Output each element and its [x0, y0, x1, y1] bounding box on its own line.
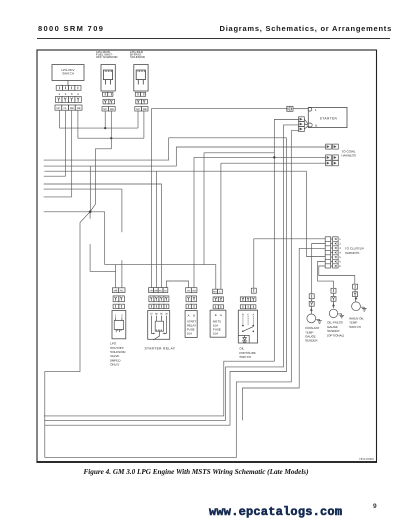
- starter terminal B: [308, 123, 312, 127]
- figure caption: [0, 468, 396, 476]
- wire bus y171 to relay86: [44, 170, 306, 172]
- header rule: [37, 38, 390, 39]
- svg-text:C: C: [219, 291, 221, 294]
- svg-text:A: A: [252, 313, 254, 316]
- switch SW2 oil pressure body: [238, 310, 257, 343]
- svg-text:NC: NC: [136, 108, 140, 111]
- svg-text:5: 5: [339, 256, 341, 259]
- svg-text:C: C: [247, 313, 249, 316]
- svg-text:SWITCH: SWITCH: [349, 325, 361, 329]
- connector J1 row B sockets: [56, 97, 82, 103]
- svg-text:1: 1: [59, 92, 61, 96]
- wire mstsB riser: [220, 163, 222, 289]
- wire Z3 relay30 loop: [45, 138, 287, 425]
- wire L2 left drop: [137, 111, 138, 128]
- connector L2 socket row: [136, 99, 148, 104]
- starter terminal 1: [308, 108, 312, 112]
- sensor temp switch circle: [352, 302, 361, 311]
- wire valve right riser: [121, 189, 123, 288]
- svg-text:2: 2: [339, 243, 341, 246]
- connector 3-cell at starter B: [299, 117, 305, 132]
- wire bus y176 step: [44, 175, 66, 177]
- svg-text:NC: NC: [57, 107, 61, 110]
- wire step B to cowl upper: [44, 147, 326, 166]
- connector cowl upper pair: [326, 144, 339, 149]
- fuse F2 msts body: [210, 310, 226, 337]
- svg-text:MB: MB: [70, 107, 74, 110]
- svg-text:8: 8: [339, 265, 341, 268]
- svg-text:MA: MA: [213, 291, 217, 294]
- wire bus y197: [44, 196, 72, 198]
- sensor oil press circle: [329, 309, 337, 317]
- wire node step from y138 bus: [90, 138, 111, 212]
- connector relay label row: [149, 288, 154, 293]
- svg-text:1: 1: [339, 238, 341, 241]
- wire bridge relay-fuse: [166, 281, 188, 288]
- node J main: [89, 211, 92, 214]
- header right: [220, 24, 392, 33]
- svg-text:SWITCH: SWITCH: [62, 72, 74, 76]
- connector oil sender pair: [331, 288, 336, 293]
- switch S1 LPG REV SWITCH: [52, 65, 84, 81]
- wire row5 feed: [307, 171, 326, 256]
- wire cluster2 to coolant: [312, 244, 326, 294]
- connector L1 plug row: [103, 92, 113, 96]
- watermark: [0, 505, 400, 519]
- wire Z4 starter cell3 loop: [45, 131, 299, 458]
- label oil sender: [327, 321, 344, 338]
- svg-text:85: 85: [160, 313, 163, 316]
- wire battery to starter 1: [293, 108, 308, 110]
- wire node stub down: [89, 212, 91, 219]
- wire cluster3: [299, 247, 325, 249]
- svg-text:30: 30: [165, 313, 168, 316]
- connector msts socket row: [213, 297, 218, 302]
- connector oilsw pin row: [240, 305, 245, 309]
- wire cluster7 to temp switch: [319, 266, 355, 284]
- wires 3-cell to terminal B: [304, 119, 308, 129]
- svg-text:AV: AV: [164, 289, 167, 292]
- wire step A to Z3: [44, 138, 287, 160]
- wire x204 drop: [203, 153, 205, 265]
- svg-text:GB: GB: [154, 289, 158, 292]
- connector relay pin row: [149, 304, 154, 308]
- connector msts pin row: [213, 305, 218, 309]
- wire fuseB riser: [193, 157, 195, 287]
- wire cowl lower: [221, 162, 326, 164]
- svg-text:SWITCH: SWITCH: [239, 355, 251, 359]
- svg-text:ONLY): ONLY): [110, 363, 119, 367]
- connector coolant pair: [309, 294, 314, 299]
- ground coolant: [316, 319, 322, 323]
- ground temp switch: [361, 307, 367, 311]
- connector fuse1 socket row: [186, 296, 191, 302]
- relay K1 body: [148, 311, 170, 340]
- connector L2 plug row: [135, 92, 145, 96]
- connector valve socket row: [113, 296, 119, 302]
- connector AB inline: [287, 106, 293, 111]
- wire y261 to mstsA: [105, 265, 216, 290]
- wire bus y128 to solenoids: [60, 127, 137, 129]
- svg-text:AB: AB: [149, 289, 153, 292]
- svg-text:MB: MB: [143, 108, 147, 111]
- svg-text:B: B: [215, 314, 217, 317]
- connector cowl lower quad: [326, 155, 339, 166]
- wire bus y184 to relay85: [44, 184, 162, 288]
- wire bus y138 to solenoids: [78, 137, 144, 139]
- svg-text:86: 86: [155, 313, 158, 316]
- wire starter1 to relay87: [151, 109, 286, 288]
- ground oil sender: [338, 314, 344, 318]
- node cowl tap: [273, 156, 275, 158]
- sensor coolant circle: [307, 314, 316, 323]
- connector L2 label row: [135, 107, 148, 111]
- connector valve label row: [112, 288, 118, 293]
- svg-text:GB: GB: [192, 289, 196, 292]
- connector J1 row C wire labels: [55, 105, 82, 110]
- svg-text:(OPTIONAL): (OPTIONAL): [327, 333, 344, 337]
- svg-text:10A: 10A: [187, 331, 192, 335]
- wire y271 link: [90, 244, 116, 271]
- label oil pressure switch: [239, 347, 256, 359]
- page number: [373, 503, 377, 510]
- svg-text:AU: AU: [159, 289, 163, 292]
- solenoid L1 body: [101, 65, 115, 92]
- header left: [38, 24, 104, 33]
- wire y153 link: [204, 152, 274, 154]
- label valve: [110, 342, 126, 367]
- svg-text:A: A: [188, 314, 190, 317]
- svg-text:NC: NC: [120, 289, 124, 292]
- valve V1 body: [112, 311, 126, 339]
- label TO CLUSTER HARNESS: [345, 247, 365, 255]
- svg-text:MB: MB: [114, 289, 118, 292]
- wire oilsw to cluster1: [254, 239, 325, 288]
- svg-text:B: B: [315, 124, 317, 128]
- node L1 left: [104, 127, 106, 129]
- svg-text:SOLENOID: SOLENOID: [130, 55, 145, 59]
- svg-text:6: 6: [339, 261, 341, 264]
- svg-text:STARTER: STARTER: [320, 116, 338, 120]
- svg-text:3: 3: [71, 92, 73, 96]
- wire L1 left drop: [104, 111, 106, 128]
- wire x104 drop: [104, 212, 106, 265]
- svg-text:AV: AV: [187, 289, 190, 292]
- wire rev pin2 drop: [65, 110, 67, 176]
- wire x90 drop to node: [89, 166, 91, 212]
- svg-text:GB: GB: [77, 107, 81, 110]
- svg-text:4: 4: [77, 92, 79, 96]
- connector temp switch pair: [353, 284, 358, 289]
- label TO COWL HARNESS: [342, 150, 357, 158]
- solenoid L2 body: [134, 65, 148, 92]
- svg-text:HARNESS: HARNESS: [342, 154, 357, 158]
- svg-text:3: 3: [339, 247, 341, 250]
- solenoid L1 LPG MAIN FUEL SHUT-OFF SOLENOID label: [96, 50, 118, 59]
- svg-text:2: 2: [65, 92, 67, 96]
- solenoid L2 LPG IDLE BYPASS SOLENOID label: [130, 50, 145, 59]
- svg-text:MB: MB: [110, 108, 114, 111]
- svg-text:HARNESS: HARNESS: [345, 251, 360, 255]
- label temp switch: [349, 317, 364, 329]
- label coolant: [305, 326, 320, 343]
- wire S1 to connector: [67, 81, 69, 86]
- fuse F1 body: [185, 311, 197, 338]
- connector valve pin row: [113, 304, 119, 308]
- svg-text:4: 4: [339, 252, 341, 255]
- svg-text:NC: NC: [103, 108, 107, 111]
- svg-text:A: A: [220, 314, 222, 317]
- connector oilsw socket row: [240, 297, 245, 302]
- wire cluster6 to oil sender: [318, 262, 334, 289]
- wire rev pin1 drop: [59, 110, 61, 128]
- pin numbers 1 2 3 4: [59, 92, 80, 96]
- svg-text:B: B: [242, 313, 244, 316]
- svg-text:F1: F1: [64, 107, 68, 110]
- wire Z1 starter cell1 loop: [44, 120, 299, 416]
- wire relay86 riser: [155, 171, 157, 287]
- svg-text:HD210000: HD210000: [359, 457, 374, 461]
- node L1 right: [110, 137, 112, 139]
- wire node diag to x80: [45, 212, 90, 458]
- svg-text:2: 2: [121, 314, 123, 318]
- connector cluster block: [325, 237, 341, 268]
- wire L1 right drop: [110, 111, 112, 138]
- wire valve left riser: [115, 265, 117, 288]
- connector oilsw label cell: [251, 288, 256, 293]
- schematic outer border: [37, 50, 377, 462]
- svg-text:1: 1: [115, 314, 117, 318]
- border bottom thick: [37, 461, 378, 463]
- starter U1 box: [308, 107, 347, 127]
- svg-text:STARTER RELAY: STARTER RELAY: [145, 346, 176, 350]
- svg-text:SENDER: SENDER: [305, 339, 318, 343]
- svg-text:OFF SOLENOID: OFF SOLENOID: [96, 55, 118, 59]
- wire L2 right drop: [143, 111, 145, 138]
- wire bus y189 step: [44, 188, 122, 190]
- wire Z2 starter cell2 loop: [44, 125, 298, 421]
- svg-text:B: B: [193, 314, 195, 317]
- svg-text:87: 87: [150, 313, 153, 316]
- svg-text:10A: 10A: [213, 331, 218, 335]
- wire rev pin4 drop: [77, 110, 79, 138]
- connector msts label row: [213, 289, 218, 294]
- svg-text:1: 1: [315, 108, 317, 112]
- connector J1 row A: [56, 86, 81, 91]
- wire rev pin3 drop: [71, 110, 73, 196]
- wire node bus y211: [44, 211, 105, 213]
- connector fuse1 pin row: [186, 304, 191, 308]
- wire row3 descender: [242, 248, 299, 420]
- connector L1 label row: [102, 107, 115, 111]
- connector fuse1 label row: [186, 288, 192, 293]
- wire cowl mid: [194, 156, 326, 158]
- connector L1 socket row: [103, 99, 115, 104]
- connector relay socket row: [149, 296, 154, 302]
